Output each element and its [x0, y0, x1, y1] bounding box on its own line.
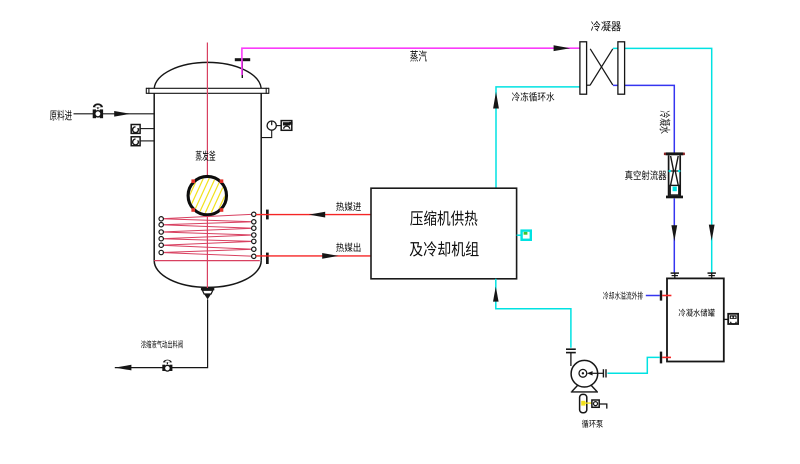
overflow nozzle flange	[660, 290, 662, 300]
label 热媒出	[336, 243, 360, 252]
pump base	[571, 385, 598, 392]
vessel left wall	[153, 93, 155, 260]
condensate line 冷凝水 (blue)	[613, 85, 674, 152]
label 冷凝器	[591, 21, 621, 32]
vacuum ejector 真空射流器	[664, 152, 685, 198]
red tangent line	[154, 260, 260, 262]
热媒出 arrow	[322, 253, 338, 259]
steam line (magenta)	[242, 48, 580, 75]
up arrow into box	[493, 287, 499, 302]
tank top nozzle 2	[708, 273, 716, 278]
tank 冷凝水储罐	[667, 278, 724, 361]
bottom red tick	[662, 356, 671, 358]
label 及冷却机组	[410, 241, 479, 256]
level switch 1	[131, 125, 154, 134]
label 冷冻循环水	[512, 92, 554, 102]
down arrow on blue	[671, 225, 677, 241]
label 原料进	[50, 110, 72, 121]
tank bottom-left nozzle flange	[660, 352, 662, 364]
cyan return run (condenser to tank)	[613, 48, 712, 272]
coil nozzle flange top	[266, 210, 269, 220]
pressure switch	[592, 400, 607, 409]
vessel centerline (red)	[206, 43, 208, 297]
bottom outlet nozzle	[201, 288, 214, 299]
label 冷却水溢流外排	[603, 291, 643, 299]
transmitter box	[281, 121, 292, 131]
pump discharge (cyan)	[607, 357, 659, 373]
feed arrow	[114, 111, 130, 117]
label 压缩机供热	[410, 210, 477, 225]
热媒进 arrow	[309, 212, 325, 218]
condenser plate left	[580, 42, 587, 94]
discharge valve 浓缩液气动出料阀	[162, 360, 172, 371]
tank top nozzle 1	[671, 273, 679, 278]
label 循环泵	[582, 420, 603, 428]
tank level instrument	[724, 314, 738, 324]
coil nozzle flange bottom	[266, 253, 269, 264]
condenser plate right	[618, 42, 625, 94]
label 冷凝水储罐	[679, 309, 715, 317]
label 蒸发釜	[196, 151, 216, 161]
coil tube ends left	[159, 217, 163, 255]
damper cylinder	[580, 394, 592, 412]
label 冷凝水 (vertical)	[660, 111, 671, 134]
pressure gauge	[261, 121, 281, 138]
vessel 蒸发釜 dome head	[154, 62, 261, 88]
instrument on box right (cyan square)	[517, 231, 531, 240]
discharge arrow	[115, 365, 131, 371]
热媒进 line	[256, 214, 371, 216]
discharge line	[115, 299, 208, 367]
steam arrow	[554, 45, 571, 51]
level switch 2	[131, 137, 154, 146]
coil tube ends right	[252, 212, 256, 258]
vessel bottom head	[154, 261, 261, 288]
steam nozzle on dome	[235, 58, 250, 78]
heating coil (red zigzag)	[161, 214, 254, 256]
down arrow on cyan return	[709, 225, 715, 241]
overflow red tick	[662, 295, 671, 297]
feed line 原料进	[74, 113, 155, 115]
overflow line 冷却水溢流外排 (blue)	[646, 295, 660, 297]
sight glass bolts	[191, 179, 223, 211]
pump 循环泵	[571, 360, 606, 387]
feed valve	[93, 103, 103, 118]
label 真空射流器	[625, 170, 666, 180]
suction flange ticks	[566, 349, 576, 366]
compressor unit box	[371, 188, 517, 279]
label 热媒进	[336, 202, 361, 211]
condenser X tubes	[587, 49, 613, 85]
vessel top flange	[146, 88, 268, 94]
label 蒸汽	[410, 50, 427, 61]
sight glass	[176, 176, 239, 214]
热媒出 line	[256, 255, 371, 257]
vessel right wall	[260, 93, 262, 260]
pump suction line (cyan)	[496, 279, 571, 348]
label 浓缩液气动出料阀	[141, 340, 183, 348]
riser up arrow	[493, 92, 499, 109]
chilled water riser 冷冻循环水 (cyan)	[496, 87, 580, 188]
